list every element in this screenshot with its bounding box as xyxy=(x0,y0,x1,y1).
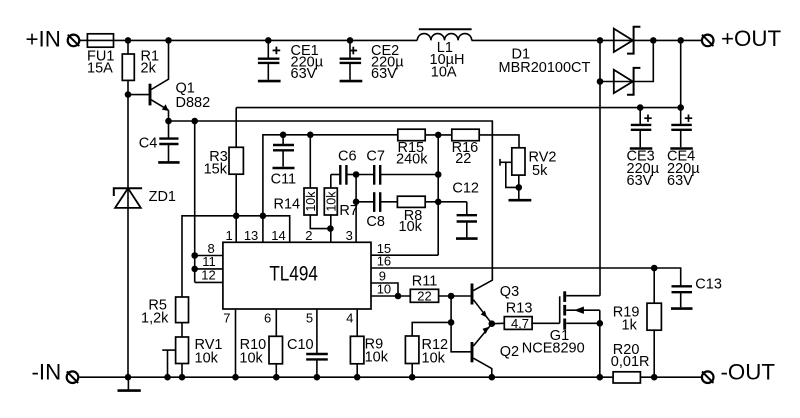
ground C12 xyxy=(456,237,478,240)
value label L1 10uH 10A xyxy=(430,40,465,81)
svg-text:1,2k: 1,2k xyxy=(141,311,169,327)
svg-text:+OUT: +OUT xyxy=(721,26,781,51)
svg-text:R13: R13 xyxy=(506,301,533,317)
zener ZD1 xyxy=(114,188,142,208)
terminal -IN xyxy=(67,371,79,383)
wire to +OUT xyxy=(653,39,701,41)
svg-text:5k: 5k xyxy=(532,163,548,179)
capacitor CE4 xyxy=(671,108,692,148)
svg-text:2: 2 xyxy=(305,228,312,243)
pin 7 wire xyxy=(235,309,237,377)
node junction pin7 bottom xyxy=(232,374,239,381)
node junction CE2 xyxy=(347,37,354,44)
value label R20 0,01R xyxy=(611,342,650,370)
svg-text:6: 6 xyxy=(264,311,271,326)
svg-text:C13: C13 xyxy=(695,277,722,293)
node junction RV1 bottom xyxy=(179,374,186,381)
ground C13 xyxy=(671,307,693,310)
terminal -OUT xyxy=(702,371,714,383)
diode D1b xyxy=(600,40,653,94)
node junction +OUT branch xyxy=(677,37,684,44)
svg-text:-OUT: -OUT xyxy=(721,360,776,385)
svg-text:22: 22 xyxy=(417,289,431,304)
svg-text:C6: C6 xyxy=(338,149,357,165)
transistor G1 mosfet xyxy=(560,291,600,377)
wire 12V rail xyxy=(169,121,493,280)
value label R9 10k xyxy=(365,337,389,366)
resistor R11 xyxy=(410,289,470,304)
value label CE1 220u 63V xyxy=(291,43,324,82)
resistor R12 xyxy=(405,322,451,377)
capacitor C11 xyxy=(273,135,294,167)
resistor R16 xyxy=(452,129,519,147)
ground CE1 xyxy=(258,80,281,83)
node junction R12 bottom xyxy=(409,374,416,381)
svg-text:ZD1: ZD1 xyxy=(149,189,176,205)
node junction ZD1 bottom xyxy=(125,374,132,381)
value label G1 NCE8290 xyxy=(522,328,585,357)
capacitor C4 xyxy=(159,121,178,161)
svg-text:C11: C11 xyxy=(271,172,297,188)
node junction D1b anode xyxy=(597,78,604,85)
resistor R9 xyxy=(350,336,364,377)
resistor R7 xyxy=(324,175,338,243)
resistor R13 xyxy=(492,316,560,331)
wire switch node vertical xyxy=(599,40,601,295)
svg-text:10k: 10k xyxy=(195,350,219,366)
pin 15 wire xyxy=(371,254,438,256)
node junction R10 bottom xyxy=(273,374,280,381)
op-amp U1 TL494 box xyxy=(223,242,371,309)
value label R15 240k xyxy=(396,140,428,167)
resistor R5 xyxy=(176,297,189,337)
value label R1 2k xyxy=(141,49,160,77)
svg-text:10k: 10k xyxy=(365,349,389,365)
node junction C7 fb xyxy=(435,171,442,178)
wire R5 R3 pin13 pin14 xyxy=(182,216,290,297)
svg-text:C10: C10 xyxy=(287,337,314,353)
wire base tie xyxy=(451,296,471,352)
node junction pin8 xyxy=(191,252,198,259)
svg-text:10A: 10A xyxy=(431,64,457,80)
svg-text:10k: 10k xyxy=(422,350,446,366)
value label R19 1k xyxy=(613,304,640,333)
wire top rail right xyxy=(472,39,635,41)
svg-text:1: 1 xyxy=(225,228,232,243)
capacitor C6 xyxy=(331,165,356,185)
node junction CE4 xyxy=(677,104,684,111)
wire xyxy=(79,39,87,41)
svg-text:4: 4 xyxy=(346,311,353,326)
resistor R8 xyxy=(397,196,466,207)
svg-text:C4: C4 xyxy=(139,136,158,152)
svg-text:22: 22 xyxy=(455,151,471,167)
node junction R15 R16 xyxy=(435,132,442,139)
wire R15 R16 xyxy=(425,134,452,136)
value label R16 22 xyxy=(452,140,479,167)
node junction sense top xyxy=(651,265,658,272)
wire output sense xyxy=(236,107,681,109)
svg-text:R11: R11 xyxy=(412,274,438,290)
svg-text:10k: 10k xyxy=(399,219,423,235)
fuse FU1 xyxy=(87,34,113,47)
svg-text:7: 7 xyxy=(223,311,230,326)
diode D1a xyxy=(614,27,654,54)
svg-text:16: 16 xyxy=(377,254,391,269)
wire ZD1 column xyxy=(127,95,129,378)
svg-text:Q3: Q3 xyxy=(500,284,519,300)
node junction Q2 collector xyxy=(489,374,496,381)
ground CE3 xyxy=(630,147,653,150)
capacitor C8 xyxy=(356,192,397,212)
capacitor C7 xyxy=(356,165,438,185)
pin 9 wire xyxy=(371,283,398,296)
node junction 12V xyxy=(191,118,198,125)
svg-text:C8: C8 xyxy=(366,214,385,230)
node junction pin2 xyxy=(327,225,334,232)
svg-text:10k: 10k xyxy=(304,191,318,212)
node junction RV2 wiper xyxy=(516,184,523,191)
value label CE4 220u 63V xyxy=(667,148,700,189)
wire top rail xyxy=(114,39,418,41)
value label CE3 220u 63V xyxy=(627,148,660,189)
capacitor C12 xyxy=(457,202,477,238)
potentiometer RV1 xyxy=(162,337,188,377)
node junction R19 R20 xyxy=(651,374,658,381)
node junction R3 pin1 xyxy=(233,213,240,220)
value label Q1 D882 xyxy=(176,81,211,112)
svg-text:13: 13 xyxy=(244,228,258,243)
wire vref feed xyxy=(263,135,398,243)
resistor R1 xyxy=(122,40,134,94)
node junction C10 bottom xyxy=(314,374,321,381)
ground CE2 xyxy=(340,80,363,83)
svg-text:C7: C7 xyxy=(366,149,385,165)
transistor Q1 xyxy=(128,40,169,121)
node junction C6 C7 xyxy=(353,171,360,178)
svg-text:+IN: +IN xyxy=(26,26,61,51)
svg-text:240k: 240k xyxy=(396,151,428,167)
value label R3 15k xyxy=(204,149,228,178)
capacitor CE1 xyxy=(258,40,280,79)
capacitor CE2 xyxy=(340,40,362,79)
ground CE4 xyxy=(670,147,693,150)
value label R5 1,2k xyxy=(141,297,169,326)
svg-text:MBR20100CT: MBR20100CT xyxy=(499,60,591,76)
wire pin3 column xyxy=(355,175,357,243)
node junction pin9 pin10 xyxy=(395,293,402,300)
value label RV2 5k xyxy=(529,150,557,179)
svg-text:4,7: 4,7 xyxy=(511,316,529,331)
resistor R10 xyxy=(269,336,283,377)
resistor R20 xyxy=(613,372,702,383)
svg-text:15k: 15k xyxy=(204,161,228,177)
svg-text:R14: R14 xyxy=(274,196,301,212)
inductor L1 xyxy=(417,29,471,40)
svg-text:63V: 63V xyxy=(371,66,397,82)
pin 16 wire current sense xyxy=(371,268,681,286)
node junction C11 xyxy=(280,132,287,139)
value label R12 10k xyxy=(422,337,449,366)
node junction R1 bottom xyxy=(125,91,132,98)
value label D1 MBR20100CT xyxy=(499,46,591,76)
svg-text:D882: D882 xyxy=(176,95,211,111)
pin 4 wire xyxy=(356,309,358,336)
svg-text:0,01R: 0,01R xyxy=(611,354,650,370)
svg-text:3: 3 xyxy=(346,228,353,243)
ground C11 xyxy=(273,167,295,170)
transistor Q3 xyxy=(472,121,492,324)
svg-text:10k: 10k xyxy=(325,191,339,212)
pin 11 wire xyxy=(195,268,223,270)
value label CE2 220u 63V xyxy=(371,43,404,82)
resistor R19 xyxy=(647,268,661,377)
pin 5 wire xyxy=(316,309,318,353)
svg-text:NCE8290: NCE8290 xyxy=(522,341,585,357)
node junction R14 top xyxy=(307,132,314,139)
capacitor CE3 xyxy=(631,108,652,148)
wire bottom rail xyxy=(79,376,613,378)
svg-text:TL494: TL494 xyxy=(269,261,318,285)
node junction R9 bottom xyxy=(354,374,361,381)
wire pin15 feedback vertical xyxy=(437,135,439,255)
svg-text:1k: 1k xyxy=(622,317,638,333)
value label R10 10k xyxy=(239,337,266,366)
node junction driver base xyxy=(448,293,455,300)
node junction RV1 wiper bottom xyxy=(164,374,171,381)
pin 10 wire xyxy=(371,295,410,297)
node junction Q1 emitter xyxy=(165,118,172,125)
node junction D1 cathodes xyxy=(650,37,657,44)
svg-text:-IN: -IN xyxy=(32,359,62,384)
svg-text:10: 10 xyxy=(377,282,391,297)
resistor R14 xyxy=(304,135,330,229)
node junction R1 top xyxy=(125,37,132,44)
svg-text:63V: 63V xyxy=(627,173,653,189)
capacitor C13 xyxy=(672,286,693,307)
node junction G1 source xyxy=(597,320,604,327)
svg-text:63V: 63V xyxy=(667,173,693,189)
svg-text:14: 14 xyxy=(271,228,285,243)
svg-text:12: 12 xyxy=(201,268,215,283)
node junction Q1 collector xyxy=(165,37,172,44)
pin 8 wire xyxy=(195,255,223,257)
ground C4 xyxy=(158,161,179,164)
node junction C8 xyxy=(353,199,360,206)
node junction pin13 xyxy=(260,213,267,220)
svg-text:15A: 15A xyxy=(87,61,113,77)
svg-text:R7: R7 xyxy=(339,203,358,219)
node junction R12 base xyxy=(448,319,455,326)
svg-text:2k: 2k xyxy=(141,61,157,77)
node junction CE1 xyxy=(265,37,272,44)
terminal +IN xyxy=(68,35,80,47)
resistor R3 xyxy=(229,108,243,243)
svg-text:C12: C12 xyxy=(452,180,479,196)
node junction CE3 xyxy=(637,104,644,111)
wire +OUT down xyxy=(680,40,682,107)
pin 12 wire xyxy=(195,281,223,283)
value label R8 10k xyxy=(399,208,423,235)
node junction emitters xyxy=(489,320,496,327)
value label FU1 15A xyxy=(87,49,114,77)
capacitor C10 xyxy=(306,354,328,377)
transistor Q2 xyxy=(472,324,492,378)
potentiometer RV2 xyxy=(500,148,525,199)
ground RV2 xyxy=(509,199,532,202)
svg-text:5: 5 xyxy=(306,311,313,326)
resistor R15 xyxy=(398,129,425,141)
node junction switch node top xyxy=(597,37,604,44)
node junction G1 rail xyxy=(597,374,604,381)
pin 6 wire xyxy=(275,309,277,336)
node junction R8 fb xyxy=(435,199,442,206)
wire 12V drop to pins xyxy=(194,121,196,282)
svg-text:63V: 63V xyxy=(291,66,317,82)
svg-text:Q2: Q2 xyxy=(500,344,519,360)
svg-text:10k: 10k xyxy=(239,350,263,366)
value label RV1 10k xyxy=(195,337,223,366)
terminal +OUT xyxy=(702,35,714,47)
node junction pin11 xyxy=(191,266,198,273)
ground main xyxy=(118,377,141,390)
